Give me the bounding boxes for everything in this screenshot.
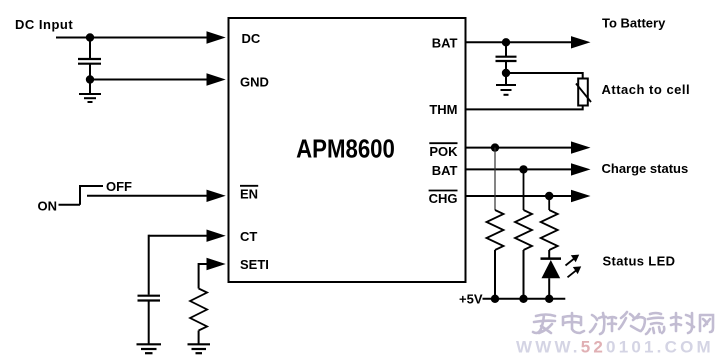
- svg-text:APM8600: APM8600: [296, 135, 395, 164]
- svg-text:BAT: BAT: [432, 36, 458, 51]
- wire C3 down to junction J4: [505, 62, 507, 74]
- svg-text:CHG: CHG: [429, 191, 458, 206]
- svg-text:Charge status: Charge status: [602, 161, 689, 176]
- capacitor C1: [78, 59, 101, 64]
- wire R2 down to +5V rail: [494, 250, 496, 299]
- pin label POK with overline: [429, 143, 458, 159]
- wire J4 right to thermistor RT1 top: [506, 73, 583, 79]
- watermark chinese characters: [533, 312, 713, 334]
- wire J7 down to resistor R4: [548, 196, 550, 210]
- wire pin BAT to battery arrow: [466, 41, 573, 43]
- wire pin POK to arrow: [466, 147, 573, 149]
- node junction J8 on rail: [491, 295, 499, 303]
- svg-text:EN: EN: [240, 187, 258, 202]
- arrow into pin SETI: [207, 258, 226, 270]
- wire GND input to pin GND: [90, 79, 208, 81]
- arrow To Battery: [571, 36, 591, 48]
- switch SW1 lever vertical: [79, 186, 81, 205]
- node junction J5 on POK wire: [491, 143, 499, 151]
- thermistor RT1: [576, 79, 591, 106]
- svg-text:DC: DC: [242, 31, 261, 46]
- wire EN to pin EN: [87, 195, 208, 197]
- arrow CHG status: [571, 190, 591, 202]
- wire CT horizontal to pin CT: [149, 235, 208, 237]
- svg-text:DC Input: DC Input: [15, 17, 73, 32]
- svg-text:Status LED: Status LED: [603, 254, 676, 269]
- svg-text:WWW.520101.COM: WWW.520101.COM: [516, 338, 714, 357]
- wire CT down to capacitor C2: [148, 235, 150, 295]
- ground GND4 below R1: [188, 344, 211, 353]
- pin label EN with overline: [240, 186, 258, 202]
- capacitor C3: [496, 57, 517, 61]
- wire J1 down to capacitor C1: [89, 38, 91, 59]
- svg-text:OFF: OFF: [106, 179, 132, 194]
- resistor R1: [190, 289, 207, 331]
- ground GND2 below C2: [137, 344, 162, 353]
- svg-text:To Battery: To Battery: [602, 16, 666, 31]
- wire DC input to pin DC: [56, 37, 208, 39]
- wire R3 down to +5V rail: [523, 250, 525, 299]
- IC U1 APM8600 body: [229, 18, 466, 282]
- LED D1 cathode bar: [541, 257, 562, 260]
- node junction J4: [502, 69, 510, 77]
- wire J3 down to capacitor C3: [505, 42, 507, 56]
- node junction J3 on BAT wire: [502, 38, 510, 46]
- wire pin CHG to arrow: [466, 195, 573, 197]
- svg-text:SETI: SETI: [240, 257, 269, 272]
- svg-text:Attach to cell: Attach to cell: [602, 82, 691, 97]
- wire J6 down to resistor R3: [523, 169, 525, 210]
- wire J5 down to resistor R2: [494, 148, 496, 210]
- node junction J10 on rail: [545, 295, 553, 303]
- wire R1 down to ground: [198, 331, 200, 345]
- pin label CHG with overline: [429, 191, 458, 207]
- svg-text:GND: GND: [240, 75, 269, 90]
- arrow into pin DC: [207, 31, 226, 43]
- node junction J9 on rail: [519, 295, 527, 303]
- arrow into pin EN: [207, 190, 226, 202]
- wire from ON to switch pivot: [59, 204, 81, 206]
- svg-text:+5V: +5V: [459, 292, 483, 307]
- LED D1 emission arrow lower: [568, 266, 582, 277]
- wire C2 down to ground: [148, 302, 150, 345]
- svg-text:THM: THM: [429, 102, 457, 117]
- LED D1 triangle: [542, 260, 561, 278]
- node junction J2 on GND wire: [86, 75, 94, 83]
- svg-text:POK: POK: [429, 144, 458, 159]
- wire SETI horizontal to pin SETI: [199, 263, 208, 265]
- svg-text:CT: CT: [240, 229, 257, 244]
- arrow BAT status: [571, 163, 591, 175]
- svg-text:ON: ON: [38, 198, 58, 213]
- capacitor C2: [138, 296, 161, 301]
- arrow POK status: [571, 141, 591, 153]
- wire +5V rail: [483, 298, 566, 300]
- wire RT1 bottom to pin THM: [466, 106, 583, 110]
- arrow into pin CT: [207, 230, 226, 242]
- node junction J7 on CHG wire: [545, 192, 553, 200]
- ground GND3 below J4: [496, 73, 516, 95]
- svg-text:BAT: BAT: [432, 163, 458, 178]
- wire D1 down to +5V rail: [548, 278, 550, 299]
- resistor R4: [541, 210, 558, 250]
- wire R4 down to LED D1: [548, 250, 550, 259]
- LED D1 emission arrow upper: [566, 255, 580, 266]
- node junction J6 on BAT mid wire: [519, 165, 527, 173]
- wire pin BAT mid to arrow: [466, 168, 573, 170]
- resistor R2: [487, 210, 504, 250]
- wire SETI down to resistor R1: [198, 263, 200, 289]
- ground GND1 below J2: [79, 80, 101, 103]
- node junction J1 on DC wire: [86, 33, 94, 41]
- arrow into pin GND: [207, 73, 226, 85]
- resistor R3: [515, 210, 532, 250]
- wire C1 down to junction J2: [89, 65, 91, 80]
- switch SW1 OFF stub: [79, 185, 103, 187]
